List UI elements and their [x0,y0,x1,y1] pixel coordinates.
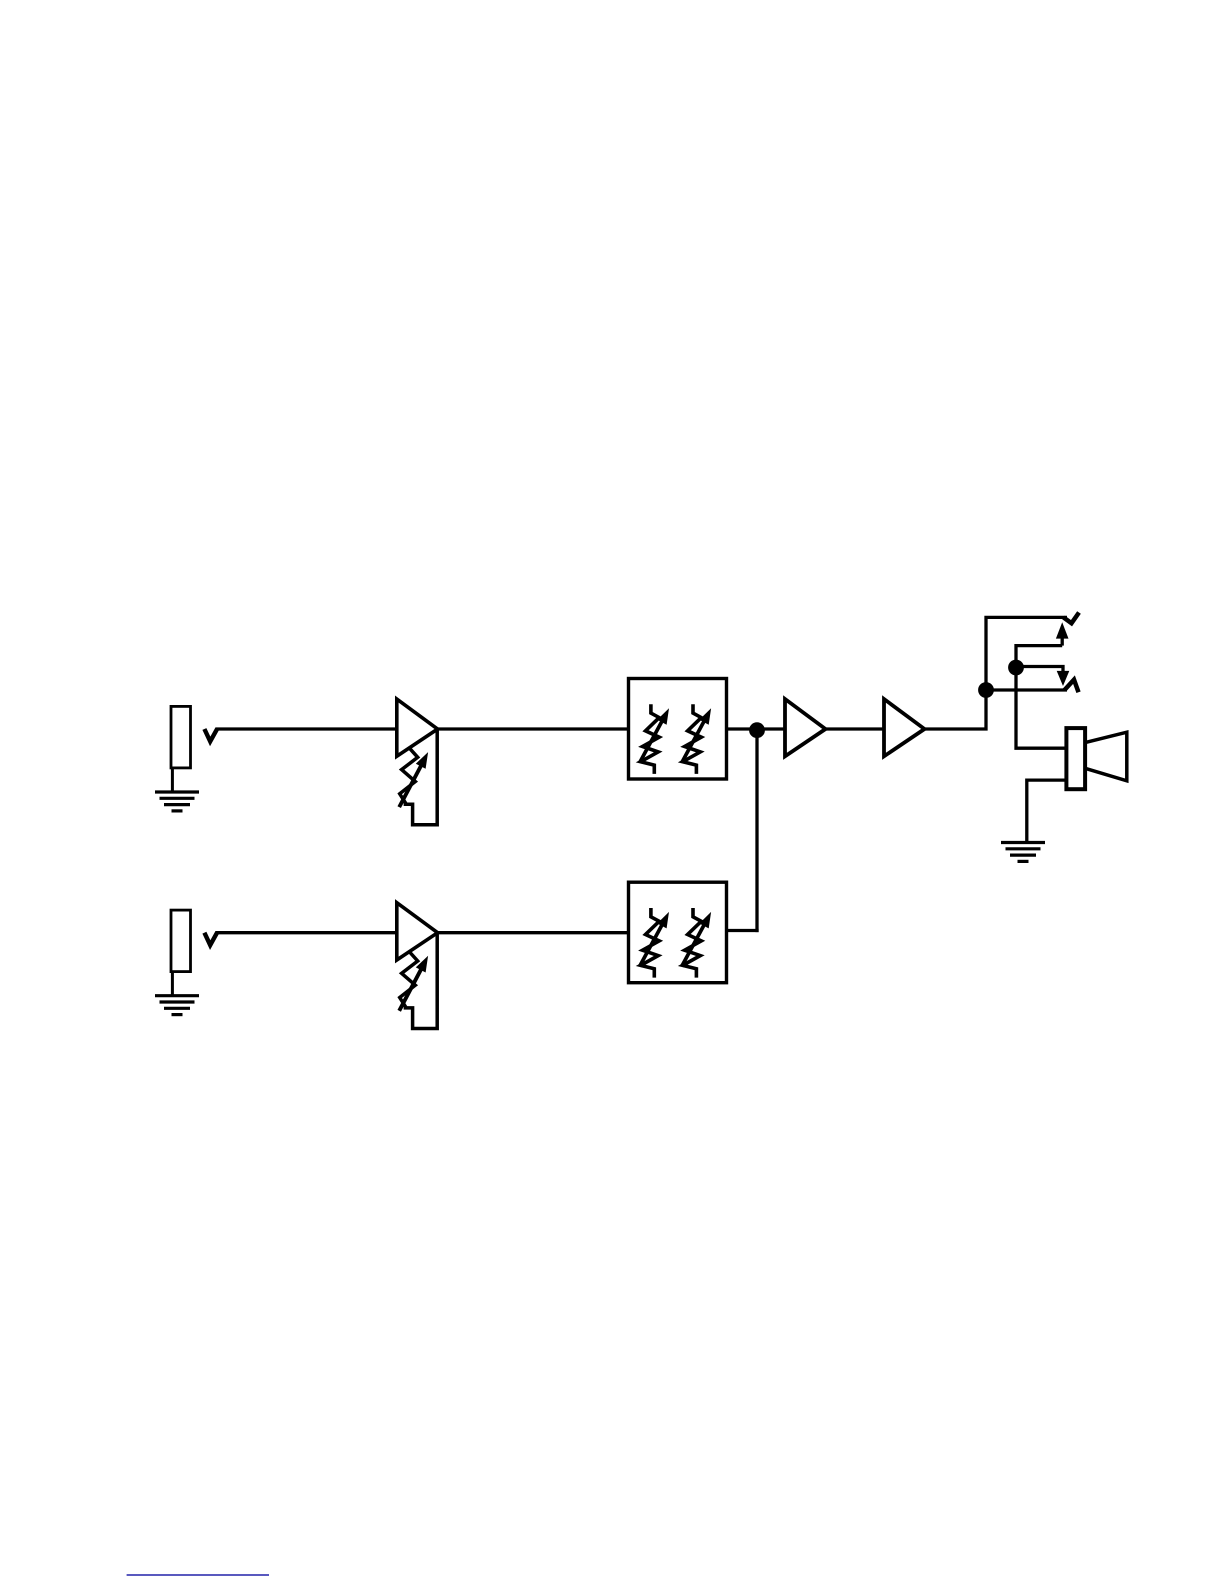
buffer amp U3 [884,699,925,756]
variable-gain amplifier U1 with gain pot [397,699,438,825]
wire: node A to jack 2 tip [986,688,1067,691]
junction: summing node [749,722,765,738]
input jack J2 (channel 2) [155,910,217,1015]
ground (speaker) [1001,843,1045,862]
wire: speaker return to ground [1027,780,1067,842]
wire: amp2 to EQ block 2 [438,931,629,934]
buffer amp U2 [785,699,826,756]
wire: jack1 to amp1 [216,727,397,730]
wire: EQ1 to summing node [727,727,786,730]
wire: buffer1 to buffer2 [826,727,885,730]
wire: jack2 to amp2 [216,931,397,934]
output jack 2 tip contact [1065,680,1079,693]
EQ block 1 (two variable resistors) [629,679,727,780]
wire: jack1 switch to node B [1016,646,1066,749]
input jack J1 (channel 1) [155,706,217,811]
variable-gain amplifier U4 with gain pot [397,903,438,1029]
junction: node A [978,682,994,698]
wire: amp1 to EQ block 1 [438,727,629,730]
output jack 2 switch contact (arrow) [1057,671,1070,686]
hyperlink rule (footer) [127,1574,269,1576]
speaker LS1 [1066,728,1085,789]
output jack 1 tip contact [1064,613,1080,624]
wire: EQ2 to summing node riser [727,929,759,932]
EQ block 2 (two variable resistors) [629,882,727,983]
wire: buffer2 output up to jack 1 tip [925,617,1068,729]
wire: summing node down to channel 2 [757,730,759,930]
output jack 1 switch contact (arrow) [1061,637,1064,646]
junction: node B [1008,660,1024,676]
wire: node B to jack 2 switch [1016,667,1063,672]
